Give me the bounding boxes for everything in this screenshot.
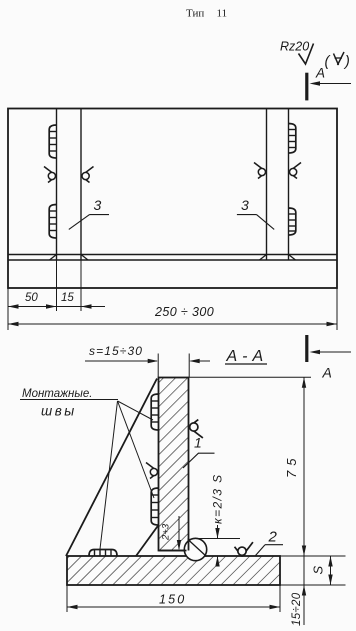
svg-text:75: 75 (284, 454, 299, 478)
svg-text:3: 3 (241, 197, 249, 213)
svg-text:Тип: Тип (186, 8, 204, 20)
svg-text:15÷20: 15÷20 (291, 592, 303, 626)
svg-text:50: 50 (25, 292, 38, 304)
svg-text:швы: швы (41, 404, 77, 419)
svg-text:Монтажные.: Монтажные. (22, 388, 92, 400)
svg-text:150: 150 (159, 593, 186, 607)
svg-text:к=2/3 S: к=2/3 S (211, 474, 225, 525)
svg-text:s=15÷30: s=15÷30 (89, 344, 143, 358)
svg-text:): ) (343, 54, 350, 70)
svg-text:A-A: A-A (226, 348, 269, 365)
svg-text:(: ( (325, 54, 332, 70)
svg-text:3: 3 (94, 197, 102, 213)
svg-text:Rz20: Rz20 (280, 40, 309, 54)
svg-text:2+3: 2+3 (161, 523, 172, 541)
svg-text:A: A (322, 365, 332, 381)
svg-text:S: S (311, 566, 326, 575)
svg-text:11: 11 (217, 8, 228, 20)
svg-text:250 ÷ 300: 250 ÷ 300 (154, 305, 214, 319)
svg-text:2: 2 (268, 529, 278, 546)
svg-text:1: 1 (194, 435, 202, 451)
svg-text:15: 15 (61, 292, 74, 304)
svg-text:A: A (315, 66, 325, 81)
